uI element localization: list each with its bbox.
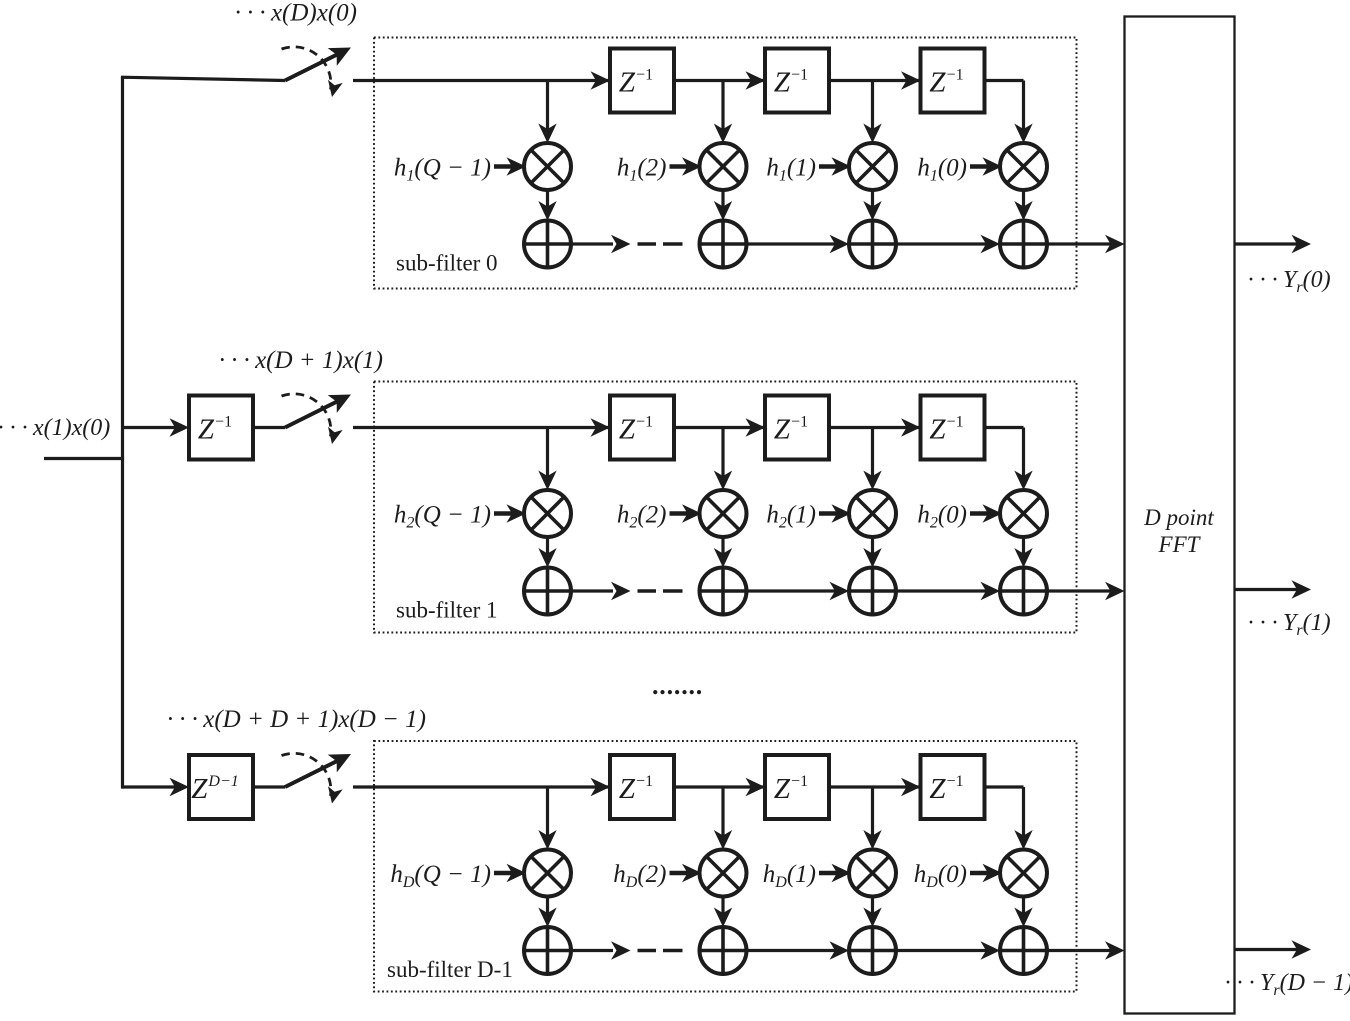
wire adder3-adder4 row0 [896, 235, 1000, 253]
delay ZB1 (Z^-1) row1 input [189, 396, 253, 460]
wire tap4 down to multiplier row2 [1014, 787, 1032, 850]
wire tap2 down to multiplier row2 [714, 787, 732, 850]
multiplier M4 row0 [1000, 143, 1047, 190]
delay Z3 row2 (Z^-1) [901, 755, 985, 819]
delay Z2 row0 (Z^-1) [746, 49, 830, 113]
node output label Y_r(D − 1) [1224, 970, 1350, 999]
wire multiplier to adder 1 row0 [538, 190, 556, 221]
wire adder4 to FFT row1 [1047, 582, 1125, 600]
wire multiplier to adder 4 row1 [1014, 537, 1032, 568]
wire adder4 to FFT row0 [1047, 235, 1125, 253]
wire tap4 down to multiplier row0 [1014, 81, 1032, 144]
svg-text:h1(1): h1(1) [766, 155, 816, 185]
wire tap3 down to multiplier row0 [863, 81, 881, 144]
coefficient label h_2(Q − 1) row1 [394, 502, 526, 532]
svg-text:h2(0): h2(0) [917, 502, 967, 532]
wire tap1 down to multiplier row0 [538, 81, 556, 144]
wire main delay line row2 [353, 785, 1024, 788]
wire row1 delay to switch [253, 426, 285, 429]
switch commutator row1 [282, 394, 352, 444]
svg-text:.......: ....... [652, 671, 703, 700]
svg-text:h1(2): h1(2) [617, 155, 667, 185]
wire adder2-adder3 row0 [747, 235, 850, 253]
wire branch row0 to switch [121, 77, 285, 80]
delay Z1 row2 (Z^-1) [591, 755, 675, 819]
svg-text:h2(2): h2(2) [617, 502, 667, 532]
wire tap2 down to multiplier row1 [714, 428, 732, 491]
wire adder2-adder3 row1 [747, 582, 850, 600]
node label above switch row0 [234, 0, 357, 27]
multiplier M3 row0 [849, 143, 896, 190]
coefficient label h_1(2) row0 [617, 155, 702, 185]
multiplier M2 row1 [700, 490, 747, 537]
coefficient label h_1(0) row0 [917, 155, 1002, 185]
wire tap3 down to multiplier row1 [863, 428, 881, 491]
svg-text:D point: D point [1143, 505, 1214, 530]
delay Z2 row2 (Z^-1) [746, 755, 830, 819]
wire multiplier to adder 2 row1 [714, 537, 732, 568]
svg-text:FFT: FFT [1158, 532, 1202, 557]
node input x(1)x(0) label [0, 415, 110, 441]
adder A4 row2 [1000, 927, 1047, 974]
delay Z1 row0 (Z^-1) [591, 49, 675, 113]
wire multiplier to adder 2 row0 [714, 190, 732, 221]
sub-filter name label row1 [396, 598, 498, 623]
wire adder1-adder2 (dashed) row1 [571, 582, 683, 600]
svg-text:hD(2): hD(2) [613, 861, 666, 891]
adder A4 row1 [1000, 568, 1047, 615]
multiplier M3 row2 [849, 850, 896, 897]
delay Z1 row1 (Z^-1) [591, 396, 675, 460]
sub-filter box row0 (dotted) [374, 38, 1077, 289]
svg-text:···Yr(D − 1): ···Yr(D − 1) [1224, 970, 1350, 999]
sub-filter box row2 (dotted) [374, 741, 1077, 992]
multiplier M1 row2 [524, 850, 571, 897]
wire multiplier to adder 2 row2 [714, 897, 732, 928]
adder A2 row2 [700, 927, 747, 974]
multiplier M2 row2 [700, 850, 747, 897]
wire output Y_r(0) row0 [1235, 235, 1312, 253]
node output label Y_r(1) [1247, 610, 1331, 639]
multiplier M4 row2 [1000, 850, 1047, 897]
wire input bus vertical [121, 77, 124, 789]
wire adder3-adder4 row1 [896, 582, 1000, 600]
coefficient label h_1(Q − 1) row0 [394, 155, 526, 185]
wire multiplier to adder 3 row0 [863, 190, 881, 221]
svg-text:···x(D)x(0): ···x(D)x(0) [234, 0, 357, 27]
multiplier M2 row0 [700, 143, 747, 190]
adder A3 row0 [849, 221, 896, 268]
wire adder1-adder2 (dashed) row2 [571, 941, 683, 959]
svg-text:sub-filter 0: sub-filter 0 [396, 251, 498, 276]
wire branch row1 to delay [123, 418, 190, 436]
FFT block (D point FFT) [1125, 17, 1235, 1014]
coefficient label h_2(0) row1 [917, 502, 1002, 532]
wire multiplier to adder 3 row2 [863, 897, 881, 928]
adder A2 row0 [700, 221, 747, 268]
adder A1 row2 [524, 927, 571, 974]
svg-text:···Yr(1): ···Yr(1) [1247, 610, 1331, 639]
wire multiplier to adder 1 row1 [538, 537, 556, 568]
coefficient label h_2(1) row1 [766, 502, 851, 532]
wire tap4 down to multiplier row1 [1014, 428, 1032, 491]
svg-text:h1(0): h1(0) [917, 155, 967, 185]
sub-filter box row1 (dotted) [374, 382, 1077, 633]
coefficient label h_D(1) row2 [763, 861, 851, 891]
svg-text:hD(1): hD(1) [763, 861, 816, 891]
coefficient label h_1(1) row0 [766, 155, 851, 185]
svg-text:hD(0): hD(0) [914, 861, 967, 891]
sub-filter name label row2 [387, 957, 513, 982]
wire tap1 down to multiplier row1 [538, 428, 556, 491]
svg-text:···x(D + D + 1)x(D − 1): ···x(D + D + 1)x(D − 1) [166, 706, 426, 733]
wire adder3-adder4 row2 [896, 941, 1000, 959]
wire row2 delay to switch [253, 785, 285, 788]
switch commutator row0 [282, 47, 352, 97]
wire main delay line row0 [353, 79, 1024, 82]
wire main delay line row1 [353, 426, 1024, 429]
wire input stub [44, 457, 124, 460]
adder A3 row2 [849, 927, 896, 974]
sub-filter name label row0 [396, 251, 498, 276]
node output label Y_r(0) [1247, 267, 1331, 296]
multiplier M1 row1 [524, 490, 571, 537]
wire output Y_r(1) row1 [1235, 580, 1312, 598]
coefficient label h_D(2) row2 [613, 861, 701, 891]
wire tap2 down to multiplier row0 [714, 81, 732, 144]
svg-text:sub-filter 1: sub-filter 1 [396, 598, 498, 623]
wire adder2-adder3 row2 [747, 941, 850, 959]
wire adder4 to FFT row2 [1047, 941, 1125, 959]
adder A2 row1 [700, 568, 747, 615]
svg-text:···x(1)x(0): ···x(1)x(0) [0, 415, 110, 441]
adder A1 row1 [524, 568, 571, 615]
delay Z3 row1 (Z^-1) [901, 396, 985, 460]
delay Z2 row1 (Z^-1) [746, 396, 830, 460]
switch commutator row2 [282, 753, 352, 803]
coefficient label h_D(0) row2 [914, 861, 1002, 891]
wire branch row2 to delay [123, 778, 190, 796]
multiplier M3 row1 [849, 490, 896, 537]
wire multiplier to adder 3 row1 [863, 537, 881, 568]
wire tap1 down to multiplier row2 [538, 787, 556, 850]
node label above switch row2 [166, 706, 426, 733]
svg-text:···x(D + 1)x(1): ···x(D + 1)x(1) [218, 347, 383, 374]
wire tap3 down to multiplier row2 [863, 787, 881, 850]
svg-text:h2(1): h2(1) [766, 502, 816, 532]
adder A4 row0 [1000, 221, 1047, 268]
coefficient label h_D(Q − 1) row2 [390, 861, 526, 891]
multiplier M1 row0 [524, 143, 571, 190]
wire multiplier to adder 4 row0 [1014, 190, 1032, 221]
ellipsis between sub-filters [652, 671, 703, 700]
adder A1 row0 [524, 221, 571, 268]
wire adder1-adder2 (dashed) row0 [571, 235, 683, 253]
svg-text:sub-filter D-1: sub-filter D-1 [387, 957, 513, 982]
wire multiplier to adder 4 row2 [1014, 897, 1032, 928]
multiplier M4 row1 [1000, 490, 1047, 537]
coefficient label h_2(2) row1 [617, 502, 702, 532]
node label above switch row1 [218, 347, 383, 374]
wire multiplier to adder 1 row2 [538, 897, 556, 928]
svg-text:···Yr(0): ···Yr(0) [1247, 267, 1331, 296]
wire output Y_r(D − 1) row2 [1235, 940, 1312, 958]
delay Z3 row0 (Z^-1) [901, 49, 985, 113]
adder A3 row1 [849, 568, 896, 615]
delay ZB2 (Z^D-1) row2 input [189, 755, 253, 819]
